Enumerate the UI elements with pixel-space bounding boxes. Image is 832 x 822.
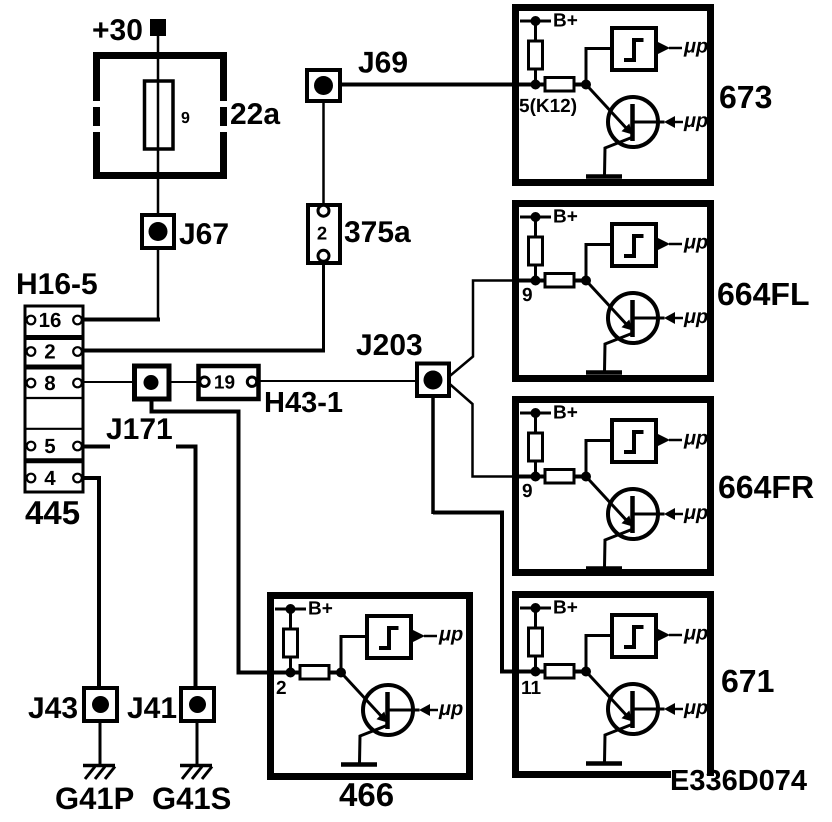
connector 375a box <box>308 205 340 263</box>
svg-text:16: 16 <box>39 309 62 332</box>
connector J67 box <box>142 215 174 248</box>
emitter wire to ground in 671 <box>605 724 634 762</box>
pin wire inside 466 <box>267 671 341 675</box>
resistor (vertical pull-up) in 673 <box>529 41 543 69</box>
svg-text:J203: J203 <box>356 329 423 362</box>
ECU box 466 <box>271 596 470 777</box>
svg-text:2: 2 <box>276 678 287 699</box>
svg-text:μp: μp <box>683 36 708 58</box>
H16-5 pin 16 terminals <box>27 316 82 325</box>
connector J41 box <box>181 688 214 721</box>
wire H16-5 pin 8 to J171 <box>80 381 137 383</box>
transistor in 664FL <box>586 281 665 344</box>
wire B+ to pin junction in 664FL <box>534 217 537 281</box>
connector J41 contact <box>189 696 206 713</box>
resistor (series) in 671 <box>545 665 574 679</box>
svg-text:4: 4 <box>44 467 56 490</box>
svg-text:μp: μp <box>683 232 708 254</box>
svg-text:664FL: 664FL <box>717 276 809 312</box>
comparator output arrow to microprocessor in 466 <box>412 630 437 643</box>
B+ node in 664FL <box>520 212 551 222</box>
H43-1 right terminal <box>247 377 256 386</box>
svg-text:5: 5 <box>44 435 55 458</box>
H16-5 pin 2 terminals <box>27 347 82 356</box>
wire junction to comparator in 664FR <box>586 441 612 477</box>
resistor (series) in 673 <box>545 78 574 92</box>
svg-text:J43: J43 <box>28 692 78 725</box>
H16-5 pin 4 terminals <box>27 474 82 483</box>
wire +30 feed down into fuse box 22a <box>157 36 160 215</box>
wire J69 to ECU 673 pin <box>340 83 535 87</box>
ground G41S symbol <box>180 766 212 780</box>
B+ node in 664FR <box>520 408 551 418</box>
connector H43-1 box <box>199 366 259 399</box>
connector J67 contact <box>149 222 168 241</box>
wire junction to comparator in 664FL <box>586 245 612 281</box>
resistor (series) in 664FR <box>545 470 574 484</box>
svg-text:B+: B+ <box>553 11 578 32</box>
wire J43 to ground G41P <box>99 721 102 765</box>
wire J69 down to 375a <box>322 101 325 205</box>
resistor (vertical pull-up) in 664FL <box>529 237 543 265</box>
wire H16-5 pin 2 to 375a (horizontal) <box>80 349 325 353</box>
H16-5 pin 8 terminals <box>27 379 82 388</box>
connector J43 box <box>84 688 117 721</box>
pin wire inside 664FL <box>512 279 586 283</box>
wire J67 to H16-5 pin 16 (vertical) <box>157 248 160 322</box>
svg-text:J67: J67 <box>179 218 229 251</box>
microprocessor drive arrow into transistor in 466 <box>419 704 438 716</box>
microprocessor drive arrow into transistor in 664FL <box>664 312 683 324</box>
ground G41P symbol <box>83 766 115 780</box>
svg-text:H16-5: H16-5 <box>16 268 98 301</box>
comparator (schmitt trigger) in 664FR <box>612 420 656 462</box>
ground bar in 664FR <box>586 566 622 571</box>
375a top terminal <box>318 205 329 216</box>
H16-5 row dividers <box>24 338 85 461</box>
wire B+ to pin junction in 466 <box>289 609 292 673</box>
wire J203 bottom branch to ECU 671 pin 11 <box>431 388 435 514</box>
connector H16-5 body <box>25 306 83 492</box>
connector J69 contact <box>314 76 333 95</box>
wire H16-5 pin 5 stub <box>80 445 110 449</box>
wire junction to comparator in 466 <box>341 637 367 673</box>
wire 375a down to pin 2 row <box>322 263 325 352</box>
svg-text:μp: μp <box>683 502 708 524</box>
resistor (vertical pull-up) in 671 <box>529 628 543 656</box>
comparator (schmitt trigger) in 664FL <box>612 224 656 266</box>
pin wire inside 664FR <box>512 475 586 479</box>
svg-text:J41: J41 <box>127 692 177 725</box>
wire pin 5 to J41 (L-shape) <box>176 445 198 449</box>
svg-text:2: 2 <box>44 341 55 364</box>
emitter wire to ground in 664FR <box>605 529 634 567</box>
connector J203 contact <box>424 371 443 390</box>
transistor in 664FR <box>586 477 665 540</box>
svg-text:8: 8 <box>44 372 55 395</box>
svg-text:J69: J69 <box>358 47 408 80</box>
junction after series resistor in 664FR <box>581 472 591 482</box>
wire junction to comparator in 673 <box>586 49 612 85</box>
emitter wire to ground in 673 <box>605 137 634 175</box>
resistor (series) in 664FL <box>545 274 574 288</box>
junction after series resistor in 671 <box>581 667 591 677</box>
wire J203 down-branch to ECU 664FR <box>448 383 537 477</box>
comparator output arrow to microprocessor in 664FL <box>657 238 682 251</box>
resistor (vertical pull-up) in 466 <box>284 629 298 657</box>
svg-text:5(K12): 5(K12) <box>519 96 577 117</box>
transistor in 466 <box>341 673 420 736</box>
H16-5 pin 5 terminals <box>27 442 82 451</box>
svg-text:664FR: 664FR <box>718 469 814 505</box>
junction at pin in 673 <box>531 80 541 90</box>
svg-text:E336D074: E336D074 <box>670 765 807 797</box>
junction after series resistor in 664FL <box>581 276 591 286</box>
svg-text:22a: 22a <box>230 98 280 131</box>
svg-text:9: 9 <box>522 481 533 502</box>
junction at pin in 466 <box>286 668 296 678</box>
svg-text:G41P: G41P <box>55 781 134 816</box>
fuse 9 symbol inside 22a <box>145 81 174 149</box>
svg-text:μp: μp <box>683 428 708 450</box>
junction after series resistor in 673 <box>581 80 591 90</box>
svg-text:673: 673 <box>719 79 772 115</box>
svg-text:μp: μp <box>683 623 708 645</box>
emitter wire to ground in 664FL <box>605 333 634 371</box>
wire H16-5 pin 16 (horizontal) <box>80 318 160 322</box>
wire B+ to pin junction in 671 <box>534 608 537 672</box>
microprocessor drive arrow into transistor in 673 <box>664 116 683 128</box>
comparator (schmitt trigger) in 673 <box>612 28 656 70</box>
wire J203 up-branch to ECU 664FL <box>448 281 537 378</box>
B+ node in 671 <box>520 603 551 613</box>
wire H43-1 to J203 <box>258 380 419 382</box>
svg-text:B+: B+ <box>553 403 578 424</box>
pin wire inside 671 <box>512 670 586 674</box>
connector J69 box <box>307 70 340 101</box>
connector J203 box <box>417 364 449 397</box>
svg-text:μp: μp <box>438 624 463 646</box>
B+ node in 673 <box>520 16 551 26</box>
svg-text:11: 11 <box>521 678 542 699</box>
pin wire inside 673 <box>512 83 586 87</box>
junction at pin in 664FL <box>531 276 541 286</box>
comparator output arrow to microprocessor in 671 <box>657 629 682 642</box>
svg-text:9: 9 <box>522 285 533 306</box>
resistor (series) in 466 <box>300 666 329 680</box>
wire J171 to ECU 466 pin 2 <box>152 390 296 673</box>
connector J171 contact <box>144 375 159 390</box>
svg-text:466: 466 <box>339 776 394 813</box>
comparator (schmitt trigger) in 671 <box>612 615 656 657</box>
junction at pin in 671 <box>531 667 541 677</box>
svg-text:J171: J171 <box>106 413 173 446</box>
+30 terminal square <box>150 19 166 36</box>
wire J41 to ground G41S <box>196 721 199 765</box>
svg-text:375a: 375a <box>344 216 411 249</box>
comparator output arrow to microprocessor in 664FR <box>657 434 682 447</box>
svg-text:+30: +30 <box>92 14 143 47</box>
ECU box 664FL <box>516 204 711 379</box>
wire B+ to pin junction in 664FR <box>534 413 537 477</box>
comparator output arrow to microprocessor in 673 <box>657 42 682 55</box>
svg-text:19: 19 <box>214 373 235 394</box>
B+ node in 466 <box>275 604 306 614</box>
connector J43 contact <box>92 696 109 713</box>
svg-text:B+: B+ <box>308 599 333 620</box>
svg-text:μp: μp <box>438 698 463 720</box>
ground bar in 671 <box>586 761 622 766</box>
emitter wire to ground in 466 <box>360 725 389 763</box>
svg-text:H43-1: H43-1 <box>264 387 343 419</box>
microprocessor drive arrow into transistor in 664FR <box>664 508 683 520</box>
svg-text:G41S: G41S <box>152 781 231 816</box>
ECU box 673 <box>516 8 711 183</box>
svg-text:445: 445 <box>25 494 80 531</box>
wire junction to comparator in 671 <box>586 636 612 672</box>
ECU box 664FR <box>516 400 711 573</box>
ground bar in 673 <box>586 174 622 179</box>
wire J171 to H43-1 <box>168 381 200 383</box>
fuse holder box 22a (dashed sides) <box>93 52 227 179</box>
wire H16-5 pin 4 to J43 <box>80 476 101 480</box>
wire B+ to pin junction in 673 <box>534 21 537 85</box>
svg-text:9: 9 <box>181 110 190 127</box>
junction after series resistor in 466 <box>336 668 346 678</box>
comparator (schmitt trigger) in 466 <box>367 616 411 658</box>
svg-text:μp: μp <box>683 697 708 719</box>
microprocessor drive arrow into transistor in 671 <box>664 703 683 715</box>
transistor in 673 <box>586 85 665 148</box>
svg-text:B+: B+ <box>553 207 578 228</box>
svg-text:B+: B+ <box>553 598 578 619</box>
resistor (vertical pull-up) in 664FR <box>529 433 543 461</box>
svg-text:671: 671 <box>721 663 774 699</box>
ground bar in 466 <box>341 762 377 767</box>
375a bottom terminal <box>318 250 329 261</box>
H43-1 left terminal <box>200 377 209 386</box>
connector J171 box <box>135 366 170 399</box>
svg-text:2: 2 <box>317 223 327 244</box>
transistor in 671 <box>586 672 665 735</box>
ground bar in 664FL <box>586 370 622 375</box>
ECU box 671 <box>512 591 714 778</box>
svg-text:μp: μp <box>683 110 708 132</box>
svg-text:μp: μp <box>683 306 708 328</box>
junction at pin in 664FR <box>531 472 541 482</box>
